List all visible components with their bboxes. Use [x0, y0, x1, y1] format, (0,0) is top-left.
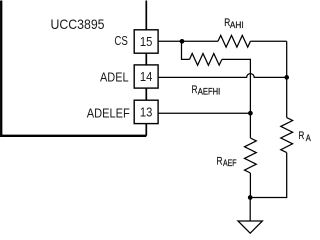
- wire node A down to RAEFHI: [182, 41, 190, 59]
- node A junction dot: [180, 39, 185, 44]
- svg-text:AHI: AHI: [230, 20, 244, 30]
- svg-text:A: A: [306, 133, 311, 143]
- svg-text:AEFHI: AEFHI: [198, 86, 220, 96]
- svg-text:13: 13: [140, 104, 153, 119]
- wire RAEFHI to vertical drop: [222, 59, 251, 113]
- node C junction dot: [248, 111, 253, 116]
- wire CS pin15 to node A: [158, 40, 218, 42]
- svg-text:ADELEF: ADELEF: [87, 106, 130, 121]
- svg-text:R: R: [216, 155, 222, 167]
- svg-text:14: 14: [140, 69, 153, 84]
- resistor RA zigzag vertical: [281, 118, 293, 153]
- node B junction dot on right rail: [284, 75, 289, 80]
- wire node C down to RAEF: [249, 113, 251, 138]
- node D junction dot: [248, 195, 253, 200]
- svg-text:15: 15: [140, 34, 153, 49]
- resistor RAEFHI zigzag: [190, 54, 222, 66]
- right rail down from node B to RA: [286, 41, 288, 117]
- wire RAEF to node D: [249, 173, 251, 198]
- svg-text:AEF: AEF: [223, 158, 237, 168]
- svg-text:ADEL: ADEL: [100, 69, 129, 84]
- resistor RAHI zigzag: [218, 35, 250, 47]
- svg-text:R: R: [298, 130, 304, 142]
- wire ADEL pin14 with hop over vertical: [158, 74, 287, 78]
- svg-text:R: R: [192, 84, 198, 96]
- svg-text:UCC3895: UCC3895: [51, 17, 105, 32]
- wire ADELEF pin13 to node C: [158, 112, 250, 114]
- ground stem: [249, 198, 251, 222]
- op-amp U1 UCC3895 IC outline: [1, 1, 146, 136]
- resistor RAEF zigzag vertical: [245, 138, 257, 173]
- wire RAHI to right rail: [250, 40, 286, 42]
- svg-text:CS: CS: [114, 34, 128, 48]
- pin box 13: [134, 100, 158, 123]
- pin box 15: [134, 30, 158, 53]
- pin box 14: [134, 65, 158, 88]
- pin boundary line through pin boxes: [145, 1, 147, 136]
- ground symbol triangle: [238, 221, 262, 233]
- wire RA bottom to node D: [250, 153, 286, 198]
